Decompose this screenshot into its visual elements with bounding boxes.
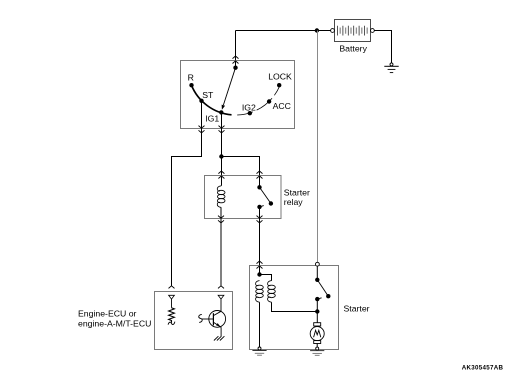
- svg-text:engine-A-M/T-ECU: engine-A-M/T-ECU: [78, 318, 151, 328]
- terminal: starter B feed-through: [316, 262, 320, 266]
- battery B1: [331, 20, 375, 42]
- svg-text:relay: relay: [284, 197, 303, 207]
- arrow into ECU ST input: [169, 286, 175, 289]
- continuation squiggle below resistor: [168, 322, 175, 325]
- starter switch bottom contact with stub: [315, 297, 322, 301]
- svg-text:LOCK: LOCK: [268, 72, 292, 82]
- relay switch top contact: [257, 185, 261, 189]
- pin: ECU ST input: [169, 295, 175, 299]
- node: junction motor / pull-in coil: [315, 309, 319, 313]
- wire: battery top feed horizontal: [236, 30, 331, 32]
- ground: starter motor: [310, 347, 324, 355]
- arrow into ECU relay driver input: [218, 286, 224, 289]
- wire: B terminal to switch contact: [316, 266, 318, 280]
- arrows into relay coil: [218, 171, 224, 179]
- node: junction solenoid coils: [257, 272, 261, 276]
- starter switch top contact: [315, 278, 319, 282]
- svg-text:Engine-ECU or: Engine-ECU or: [78, 309, 137, 319]
- engine ECU box: [155, 292, 233, 350]
- arrows out of ignition switch ST wire: [199, 126, 205, 133]
- wire: branch to relay switch: [222, 157, 260, 188]
- motor M brush terminal top: [314, 323, 321, 326]
- ignition detent arc IG1-IG2: [237, 112, 253, 115]
- arrows into starter solenoid: [257, 261, 263, 269]
- relay switch blade: [260, 187, 271, 203]
- relay coil L1: [217, 186, 225, 208]
- svg-text:Battery: Battery: [339, 44, 367, 54]
- starter relay box: [205, 176, 282, 219]
- svg-text:AK305457AB: AK305457AB: [462, 365, 504, 372]
- label: Engine-ECU or engine-A-M/T-ECU: [78, 309, 151, 329]
- contact LOCK: [277, 83, 281, 87]
- starter pull-in coil: [268, 281, 276, 303]
- svg-text:Starter: Starter: [284, 187, 310, 197]
- ignition switch box: [181, 61, 295, 129]
- ignition detent arc ACC-LOCK: [274, 86, 279, 96]
- ignition contact arc R-ST-IG1 (thick): [191, 85, 231, 115]
- wire: emitter down: [220, 327, 222, 336]
- motor M letter: [314, 330, 321, 337]
- ground: battery: [384, 63, 398, 73]
- arrows into relay switch: [257, 171, 263, 179]
- motor M brush terminal bottom: [314, 341, 321, 344]
- arrow into ignition switch: [233, 56, 239, 64]
- node: ignition rotor pivot: [233, 66, 237, 70]
- relay switch bottom contact with stub: [257, 205, 263, 209]
- starter box: [250, 266, 339, 350]
- contact IG2: [248, 111, 252, 115]
- wire: relay switch to starter solenoid: [259, 207, 261, 275]
- wire: ST to engine ECU: [172, 101, 202, 286]
- resistor R1: [169, 308, 175, 323]
- svg-text:IG2: IG2: [242, 103, 256, 113]
- wire: battery negative to ground: [374, 31, 391, 64]
- ignition detent arc IG2-ACC: [257, 98, 272, 110]
- arrows out of relay coil: [218, 216, 224, 223]
- wire: motor to ground: [316, 344, 318, 348]
- contact R: [189, 83, 193, 87]
- arrows out of ignition switch IG1 wire: [219, 126, 225, 133]
- svg-text:IG1: IG1: [205, 114, 219, 124]
- motor M armature circle: [310, 327, 324, 341]
- svg-text:R: R: [188, 73, 194, 83]
- transistor Q1: [202, 311, 226, 328]
- wire: pull-in coil to motor node: [272, 302, 318, 311]
- ground: starter hold-in coil: [252, 347, 266, 355]
- starter switch blade end: [326, 294, 330, 298]
- continuation squiggle at transistor base: [199, 314, 202, 322]
- wire: hold-in coil to ground: [259, 302, 261, 347]
- wire: pin to transistor collector: [220, 299, 222, 311]
- wire: pin to resistor: [171, 299, 173, 308]
- starter hold-in coil: [256, 281, 264, 303]
- wire: relay coil to ECU transistor: [220, 207, 222, 285]
- starter switch blade: [317, 280, 328, 296]
- node: junction battery feed: [315, 28, 319, 32]
- svg-text:ST: ST: [202, 90, 214, 100]
- wire: IG1 down to starter relay coil: [221, 112, 223, 185]
- arrows out of relay switch: [257, 216, 263, 223]
- label: Starter relay: [284, 187, 310, 207]
- svg-text:Starter: Starter: [344, 303, 370, 313]
- relay switch blade end: [269, 201, 273, 205]
- node: junction IG1 branch: [219, 154, 223, 158]
- contact IG1: [219, 110, 223, 114]
- svg-text:ACC: ACC: [273, 101, 291, 111]
- ignition wiper arm with arrowhead: [222, 68, 236, 110]
- wire: branch to pull-in coil: [260, 275, 272, 281]
- wire: drop from feed to ignition switch: [235, 31, 237, 66]
- ground: transistor emitter (chassis): [214, 336, 225, 340]
- wire: switch to motor: [316, 299, 318, 323]
- wire: battery positive down to starter B terminal: [317, 31, 319, 263]
- contact ACC: [267, 99, 271, 103]
- contact ST: [199, 99, 203, 103]
- pin: ECU relay output: [218, 295, 224, 299]
